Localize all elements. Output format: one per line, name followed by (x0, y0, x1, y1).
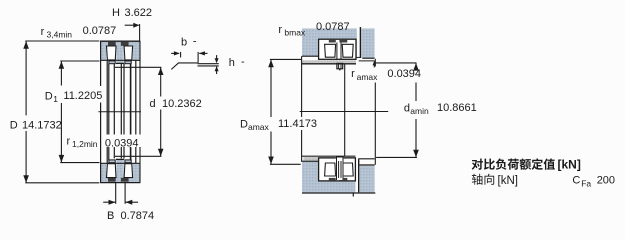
svg-text:r: r (351, 68, 355, 80)
svg-text:r: r (41, 26, 45, 38)
svg-text:D: D (10, 119, 18, 131)
svg-text:C: C (572, 175, 580, 187)
svg-text:D: D (240, 119, 248, 131)
svg-text:[kN]: [kN] (558, 158, 581, 172)
svg-text:amax: amax (248, 122, 270, 132)
svg-text:1,2min: 1,2min (72, 139, 98, 149)
svg-text:-: - (241, 56, 245, 68)
svg-text:11.4173: 11.4173 (278, 118, 317, 130)
svg-text:B: B (107, 210, 114, 222)
svg-text:3.622: 3.622 (125, 7, 153, 19)
svg-text:1: 1 (53, 94, 58, 104)
svg-text:0.0787: 0.0787 (316, 21, 350, 33)
svg-text:Fa: Fa (581, 178, 591, 188)
svg-text:[kN]: [kN] (498, 175, 518, 187)
svg-text:10.8661: 10.8661 (437, 102, 477, 114)
svg-text:bmax: bmax (284, 27, 306, 37)
svg-text:11.2205: 11.2205 (63, 90, 102, 102)
svg-text:b: b (181, 37, 187, 49)
svg-text:H: H (112, 7, 120, 19)
svg-text:0.0787: 0.0787 (83, 25, 117, 37)
svg-text:0.0394: 0.0394 (387, 68, 421, 80)
svg-text:10.2362: 10.2362 (162, 98, 202, 110)
svg-text:-: - (193, 36, 197, 48)
svg-text:r: r (67, 136, 71, 148)
svg-text:D: D (45, 91, 53, 103)
svg-text:200: 200 (597, 174, 615, 186)
svg-text:d: d (404, 103, 410, 115)
svg-text:amax: amax (357, 72, 379, 82)
svg-text:amin: amin (410, 106, 429, 116)
svg-text:0.7874: 0.7874 (121, 210, 155, 222)
svg-text:3,4min: 3,4min (47, 30, 73, 40)
svg-text:h: h (229, 57, 235, 69)
svg-text:14.1732: 14.1732 (22, 119, 62, 131)
svg-text:d: d (150, 98, 156, 110)
svg-text:r: r (278, 24, 282, 36)
